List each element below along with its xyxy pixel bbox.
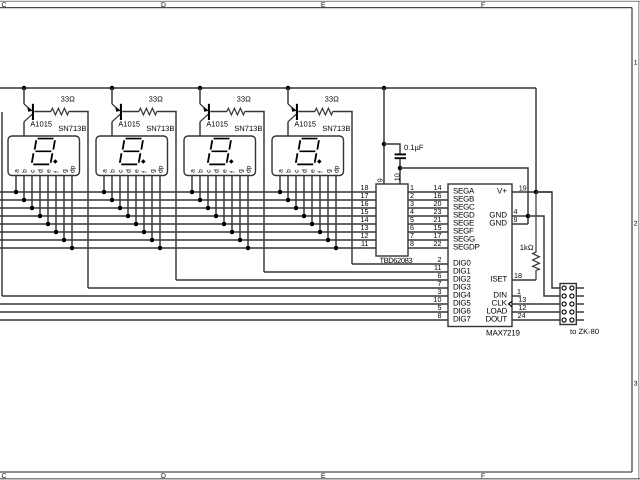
svg-text:3: 3	[634, 381, 638, 388]
wire segment bus dp to TBD62083 pin 11	[0, 247, 376, 249]
svg-text:18: 18	[514, 271, 522, 280]
sheet border inner right	[631, 8, 633, 472]
transistor Q4 emitter diagonal	[288, 104, 296, 111]
wire resistor to DIG3 drop	[70, 112, 88, 289]
svg-text:b: b	[22, 169, 29, 173]
wire Q4 base to resistor	[298, 111, 315, 113]
svg-text:a: a	[102, 169, 109, 173]
display DS2 pin g wire	[151, 176, 153, 240]
display DS1 SN713B body	[8, 136, 80, 176]
junction V+ rail / Q4 emitter	[286, 86, 291, 91]
wire MAX7219 GND4 pin	[512, 215, 528, 217]
svg-text:8: 8	[438, 311, 442, 320]
display DS4 pin e wire	[311, 176, 313, 224]
wire DIG3 horizontal to MAX7219	[88, 287, 448, 289]
transistor Q1 collector diagonal	[24, 114, 32, 122]
junction DS2 pin g to bus	[150, 238, 155, 243]
svg-text:f: f	[54, 171, 61, 173]
transistor Q1 emitter arrow (PNP)	[27, 107, 32, 112]
wire resistor to DIG1 drop	[246, 112, 264, 273]
svg-text:a: a	[190, 169, 197, 173]
connector CN1 pin circle row4 col1	[562, 310, 566, 314]
junction DS1 pin c to bus	[30, 206, 35, 211]
display DS2 seven-segment figure 8	[119, 138, 145, 165]
transistor Q4 collector diagonal	[288, 114, 296, 122]
svg-text:E: E	[321, 2, 326, 9]
transistor Q3 emitter arrow (PNP)	[203, 107, 208, 112]
svg-text:33Ω: 33Ω	[149, 95, 163, 104]
transistor Q1 emitter diagonal	[24, 104, 32, 111]
wire MAX7219 LOAD to header	[512, 311, 560, 313]
wire segment bus d to TBD62083 pin 15	[0, 215, 376, 217]
svg-text:33Ω: 33Ω	[325, 95, 339, 104]
svg-text:SEGDP: SEGDP	[453, 242, 480, 251]
junction DS1 pin g to bus	[62, 238, 67, 243]
transistor Q1 collector wire to display common	[23, 122, 25, 137]
wire DIG2 horizontal to MAX7219	[176, 279, 448, 281]
junction DS1 pin a to bus	[14, 190, 19, 195]
svg-text:g: g	[238, 169, 245, 173]
junction DS3 pin b to bus	[198, 198, 203, 203]
transistor Q3 collector diagonal	[200, 114, 208, 122]
junction DS4 pin a to bus	[278, 190, 283, 195]
display DS2 pin a wire	[103, 176, 105, 192]
junction DS2 pin e to bus	[134, 222, 139, 227]
wire MAX7219 V+ pin	[512, 191, 552, 193]
MAX7219 CLK clock marker	[509, 301, 512, 307]
svg-text:e: e	[222, 169, 229, 173]
junction DS1 pin d to bus	[38, 214, 43, 219]
wire header row3 right stub	[576, 303, 584, 305]
transistor Q2 base bar	[120, 104, 122, 120]
junction GND4 / GND net	[526, 214, 531, 219]
transistor Q1 base bar	[32, 104, 34, 120]
junction DS3 pin f to bus	[230, 230, 235, 235]
transistor Q3 base bar	[208, 104, 210, 120]
svg-text:A1015: A1015	[30, 119, 52, 128]
resistor 33ohm for digit 3	[227, 108, 246, 115]
svg-text:g: g	[326, 169, 333, 173]
svg-text:DIG7: DIG7	[453, 314, 471, 323]
svg-text:d: d	[214, 169, 221, 173]
wire MAX7219 DOUT to header	[512, 319, 560, 321]
junction DS4 pin dp to bus	[334, 246, 339, 251]
wire GND net cap to MAX7219 GND	[400, 168, 528, 224]
display DS2 pin e wire	[135, 176, 137, 224]
transistor Q2 emitter arrow (PNP)	[115, 107, 120, 112]
wire segment bus f to TBD62083 pin 13	[0, 231, 376, 233]
svg-text:19: 19	[519, 183, 527, 192]
display DS3 SN713B body	[184, 136, 256, 176]
svg-text:D: D	[161, 2, 166, 9]
svg-text:g: g	[62, 169, 69, 173]
wire DIG6 horizontal to MAX7219	[0, 311, 448, 313]
display DS3 pin e wire	[223, 176, 225, 224]
display DS4 pin a wire	[279, 176, 281, 192]
svg-text:f: f	[230, 171, 237, 173]
svg-text:TBD62083: TBD62083	[379, 256, 412, 265]
svg-text:f: f	[318, 171, 325, 173]
display DS3 pin b wire	[199, 176, 201, 200]
sheet border outer bottom	[0, 478, 640, 480]
svg-text:F: F	[481, 2, 485, 9]
resistor R5 1kohm	[533, 192, 540, 280]
svg-text:SN713B: SN713B	[322, 124, 350, 133]
IC U2 TBD62083 body	[376, 184, 408, 256]
svg-text:E: E	[321, 473, 326, 480]
sheet border outer right	[638, 1, 640, 479]
wire segment bus b to TBD62083 pin 17	[0, 199, 376, 201]
svg-text:g: g	[150, 169, 157, 173]
svg-text:10: 10	[392, 173, 401, 181]
svg-text:A1015: A1015	[294, 119, 316, 128]
junction DS3 pin c to bus	[206, 206, 211, 211]
svg-text:D: D	[161, 473, 166, 480]
wire TBD62083 pin 7 to MAX7219	[408, 239, 448, 241]
junction DS4 pin f to bus	[318, 230, 323, 235]
wire segment bus e to TBD62083 pin 14	[0, 223, 376, 225]
display DS4 SN713B body	[272, 136, 344, 176]
display DS2 pin b wire	[111, 176, 113, 200]
junction DS3 pin d to bus	[214, 214, 219, 219]
display DS1 pin d wire	[39, 176, 41, 216]
display DS2 SN713B body	[96, 136, 168, 176]
transistor Q2 A1015 emitter wire	[111, 88, 113, 104]
svg-text:8: 8	[410, 239, 414, 248]
display DS4 seven-segment figure 8	[295, 138, 321, 165]
sheet border outer top	[0, 0, 640, 2]
wire MAX7219 DIN stub	[512, 295, 521, 297]
capacitor C1 0.1uF plates	[395, 153, 406, 155]
display DS2 pin c wire	[119, 176, 121, 208]
junction DS3 pin e to bus	[222, 222, 227, 227]
junction DS1 pin b to bus	[22, 198, 27, 203]
display DS3 pin dp wire	[247, 176, 249, 248]
junction DS1 pin f to bus	[54, 230, 59, 235]
junction DS4 pin d to bus	[302, 214, 307, 219]
junction DS2 pin c to bus	[118, 206, 123, 211]
display DS2 pin d wire	[127, 176, 129, 216]
junction V+ rail / Q2 emitter	[110, 86, 115, 91]
transistor Q4 collector wire to display common	[287, 122, 289, 137]
transistor Q3 A1015 emitter wire	[199, 88, 201, 104]
wire V+ to header row1	[536, 192, 560, 288]
svg-text:22: 22	[434, 239, 442, 248]
junction DS1 pin e to bus	[46, 222, 51, 227]
wire TBD62083 pin 5 to MAX7219	[408, 223, 448, 225]
connector CN1 pin circle row5 col1	[562, 318, 566, 322]
display DS4 pin f wire	[319, 176, 321, 232]
svg-text:d: d	[126, 169, 133, 173]
svg-text:a: a	[278, 169, 285, 173]
wire header row4 right stub	[576, 311, 584, 313]
sheet border inner top	[0, 7, 632, 9]
junction V+ rail / TBD62083 pin 9	[382, 86, 387, 91]
wire V+ rail drop to MAX7219 V+	[535, 88, 537, 192]
svg-text:GND: GND	[489, 218, 507, 227]
svg-text:9: 9	[514, 215, 518, 224]
svg-text:dp: dp	[334, 165, 341, 173]
junction V+ rail / Q1 emitter	[22, 86, 27, 91]
svg-text:d: d	[302, 169, 309, 173]
junction DS2 pin d to bus	[126, 214, 131, 219]
transistor Q2 collector wire to display common	[111, 122, 113, 137]
wire Q2 base to resistor	[122, 111, 139, 113]
resistor 33ohm for digit 4	[315, 108, 334, 115]
junction DS2 pin f to bus	[142, 230, 147, 235]
junction DS2 pin dp to bus	[158, 246, 163, 251]
wire MAX7219 GND9 pin	[512, 223, 528, 225]
transistor Q4 A1015 emitter wire	[287, 88, 289, 104]
svg-text:SN713B: SN713B	[146, 124, 174, 133]
display DS4 pin d wire	[303, 176, 305, 216]
wire TBD62083 pin 1 to MAX7219	[408, 191, 448, 193]
connector CN1 pin circle row3 col1	[562, 302, 566, 306]
svg-text:dp: dp	[246, 165, 253, 173]
svg-text:V+: V+	[497, 186, 507, 195]
svg-text:to ZK-80: to ZK-80	[570, 327, 599, 336]
junction DS2 pin a to bus	[102, 190, 107, 195]
svg-text:24: 24	[518, 311, 526, 320]
svg-text:b: b	[286, 169, 293, 173]
svg-text:A1015: A1015	[206, 119, 228, 128]
svg-text:b: b	[110, 169, 117, 173]
svg-text:1kΩ: 1kΩ	[520, 243, 534, 252]
display DS1 seven-segment figure 8	[31, 138, 57, 165]
connector CN1 pin circle row1 col1	[562, 286, 566, 290]
connector CN1 pin circle row2 col1	[562, 294, 566, 298]
TBD62083 pin 10 wire	[399, 168, 401, 184]
wire cap top	[384, 144, 400, 154]
connector CN1 pin circle row2 col2	[570, 294, 574, 298]
display DS4 pin dp wire	[335, 176, 337, 248]
svg-text:dp: dp	[158, 165, 165, 173]
wire TBD62083 pin 6 to MAX7219	[408, 231, 448, 233]
wire header row5 right stub	[576, 319, 584, 321]
junction cap tap on TBD pin9 net	[382, 142, 387, 147]
connector CN1 body	[560, 284, 576, 325]
svg-text:9: 9	[375, 178, 384, 182]
svg-text:0.1µF: 0.1µF	[404, 143, 424, 152]
wire Q3 base to resistor	[210, 111, 227, 113]
svg-text:b: b	[198, 169, 205, 173]
junction DS4 pin e to bus	[310, 222, 315, 227]
svg-text:33Ω: 33Ω	[61, 95, 75, 104]
wire GND to header row2	[528, 216, 560, 296]
display DS1 pin f wire	[55, 176, 57, 232]
resistor 33ohm for digit 1	[51, 108, 70, 115]
junction V+ / rail / 1k resistor	[534, 190, 539, 195]
transistor Q2 collector diagonal	[112, 114, 120, 122]
svg-text:11: 11	[361, 239, 368, 248]
svg-text:f: f	[142, 171, 149, 173]
junction V+ rail / Q3 emitter	[198, 86, 203, 91]
TBD62083 pin 9 wire to V+ rail	[383, 88, 385, 184]
display DS1 pin a wire	[15, 176, 17, 192]
svg-text:SN713B: SN713B	[234, 124, 262, 133]
wire DIG4 horizontal to MAX7219	[2, 295, 448, 297]
wire TBD62083 pin 8 to MAX7219	[408, 247, 448, 249]
svg-text:e: e	[46, 169, 53, 173]
svg-text:SN713B: SN713B	[58, 124, 86, 133]
display DS2 pin dp wire	[159, 176, 161, 248]
junction DS4 pin g to bus	[326, 238, 331, 243]
wire DIG7 horizontal to MAX7219	[0, 319, 448, 321]
wire resistor to DIG2 drop	[158, 112, 176, 281]
transistor Q4 emitter arrow (PNP)	[291, 107, 296, 112]
wire V+ rail horizontal	[0, 87, 536, 89]
svg-text:C: C	[2, 2, 7, 9]
junction DS3 pin g to bus	[238, 238, 243, 243]
display DS3 pin d wire	[215, 176, 217, 216]
display DS1 pin dp wire	[71, 176, 73, 248]
junction cap bottom / GND net	[398, 166, 403, 171]
svg-text:A1015: A1015	[118, 119, 140, 128]
display DS3 pin f wire	[231, 176, 233, 232]
display DS1 pin c wire	[31, 176, 33, 208]
wire header row1 right stub	[576, 287, 584, 289]
connector CN1 pin circle row4 col2	[570, 310, 574, 314]
wire segment bus a to TBD62083 pin 18	[0, 191, 376, 193]
wire segment bus g to TBD62083 pin 12	[0, 239, 376, 241]
wire TBD62083 pin 4 to MAX7219	[408, 215, 448, 217]
connector CN1 pin circle row3 col2	[570, 302, 574, 306]
junction DS4 pin c to bus	[294, 206, 299, 211]
svg-text:dp: dp	[70, 165, 77, 173]
transistor Q1 A1015 emitter wire	[23, 88, 25, 104]
svg-text:F: F	[481, 473, 485, 480]
junction DS2 pin b to bus	[110, 198, 115, 203]
svg-text:C: C	[2, 473, 7, 480]
wire TBD62083 pin 3 to MAX7219	[408, 207, 448, 209]
wire resistor to DIG0 drop	[334, 112, 352, 265]
svg-text:e: e	[134, 169, 141, 173]
display DS3 seven-segment figure 8	[207, 138, 233, 165]
svg-text:e: e	[310, 169, 317, 173]
junction DS1 pin dp to bus	[70, 246, 75, 251]
wire segment bus c to TBD62083 pin 16	[0, 207, 376, 209]
sheet border inner bottom	[0, 471, 632, 473]
display DS4 pin c wire	[295, 176, 297, 208]
transistor Q3 emitter diagonal	[200, 104, 208, 111]
svg-text:2: 2	[634, 221, 638, 228]
wire DIG1 horizontal to MAX7219	[264, 271, 448, 273]
resistor 33ohm for digit 2	[139, 108, 158, 115]
wire DIG0 horizontal to MAX7219	[352, 263, 448, 265]
svg-text:d: d	[38, 169, 45, 173]
IC U1 MAX7219 body	[448, 184, 512, 327]
display DS3 pin a wire	[191, 176, 193, 192]
display DS3 pin c wire	[207, 176, 209, 208]
svg-text:a: a	[14, 169, 21, 173]
connector CN1 pin circle row5 col2	[570, 318, 574, 322]
wire cap bottom	[399, 158, 401, 168]
wire header row2 right stub	[576, 295, 584, 297]
svg-text:MAX7219: MAX7219	[486, 329, 520, 338]
junction DS3 pin a to bus	[190, 190, 195, 195]
wire TBD62083 pin 2 to MAX7219	[408, 199, 448, 201]
transistor Q3 collector wire to display common	[199, 122, 201, 137]
display DS1 pin e wire	[47, 176, 49, 224]
connector CN1 pin circle row1 col2	[570, 286, 574, 290]
wire DIG5 horizontal to MAX7219	[0, 303, 448, 305]
display DS1 pin g wire	[63, 176, 65, 240]
wire MAX7219 ISET pin	[512, 279, 536, 281]
svg-text:1: 1	[634, 60, 638, 67]
wire DIG4 drop from off-sheet digit	[1, 112, 3, 296]
svg-text:33Ω: 33Ω	[237, 95, 251, 104]
display DS3 pin g wire	[239, 176, 241, 240]
display DS4 pin b wire	[287, 176, 289, 200]
junction DS3 pin dp to bus	[246, 246, 251, 251]
transistor Q2 emitter diagonal	[112, 104, 120, 111]
wire MAX7219 CLK to header	[512, 303, 560, 305]
wire Q1 base to resistor	[34, 111, 51, 113]
display DS1 pin b wire	[23, 176, 25, 200]
display DS2 pin f wire	[143, 176, 145, 232]
transistor Q4 base bar	[296, 104, 298, 120]
display DS4 pin g wire	[327, 176, 329, 240]
svg-text:DOUT: DOUT	[486, 314, 508, 323]
svg-text:ISET: ISET	[490, 274, 507, 283]
junction DS4 pin b to bus	[286, 198, 291, 203]
